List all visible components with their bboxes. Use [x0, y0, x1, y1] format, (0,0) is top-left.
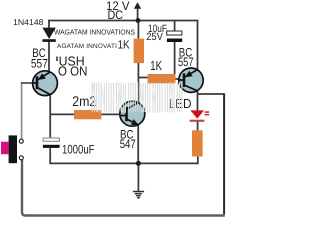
svg-text:WAGATAM INNOVATIONS: WAGATAM INNOVATIONS	[54, 27, 135, 36]
svg-text:1000uF: 1000uF	[62, 142, 95, 156]
svg-text:557: 557	[178, 55, 194, 69]
svg-text:1N4148: 1N4148	[13, 17, 44, 27]
svg-text:DC: DC	[108, 8, 124, 22]
svg-text:557: 557	[31, 56, 48, 70]
svg-text:O ON: O ON	[58, 64, 87, 79]
svg-text:1K: 1K	[150, 58, 162, 73]
svg-text:25V: 25V	[146, 31, 164, 43]
svg-text:547: 547	[120, 137, 136, 151]
svg-text:AGATAM INNOVATI: AGATAM INNOVATI	[57, 43, 117, 50]
svg-text:1K: 1K	[118, 38, 130, 52]
svg-text:2m2: 2m2	[72, 93, 96, 109]
